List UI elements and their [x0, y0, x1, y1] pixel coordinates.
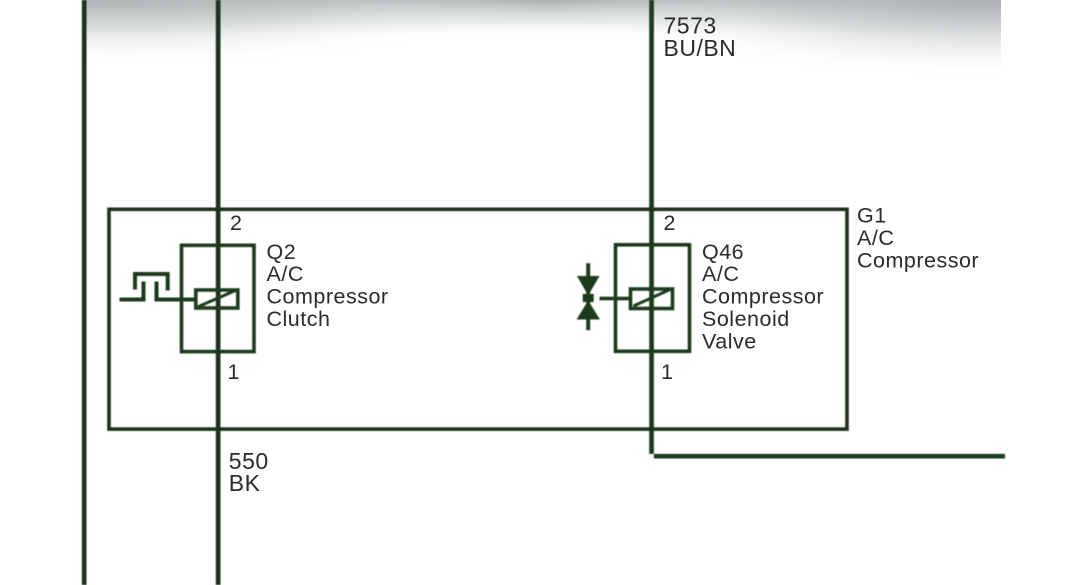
- background shading gradient: [86, 0, 1001, 34]
- wire W2: vertical wire 7573 BU/BN through Q46, corner to right side: [649, 0, 1005, 459]
- svg-text:A/C: A/C: [267, 262, 304, 286]
- component Q46 box: [616, 245, 690, 351]
- svg-text:Compressor: Compressor: [857, 249, 979, 273]
- solenoid coil symbol inside Q46: [631, 289, 673, 309]
- component G1 boundary box (A/C Compressor): [109, 209, 847, 429]
- svg-text:Compressor: Compressor: [267, 285, 389, 309]
- valve symbol left of Q46: [577, 263, 632, 330]
- svg-text:A/C: A/C: [857, 226, 894, 250]
- component Q2 box: [182, 245, 255, 351]
- svg-text:Q2: Q2: [267, 240, 297, 264]
- svg-text:1: 1: [661, 360, 673, 384]
- svg-text:BK: BK: [229, 470, 261, 496]
- svg-text:Solenoid: Solenoid: [702, 307, 790, 331]
- svg-text:BU/BN: BU/BN: [664, 35, 737, 61]
- label Q2 A/C Compressor Clutch: [267, 240, 389, 331]
- svg-text:Q46: Q46: [702, 240, 744, 264]
- label Q46 A/C Compressor Solenoid Valve: [702, 240, 824, 354]
- label wire 550 BK: [229, 448, 269, 496]
- svg-text:2: 2: [664, 211, 676, 235]
- svg-text:Compressor: Compressor: [702, 285, 824, 309]
- clutch symbol (mechanical drive) left of Q2: [120, 274, 197, 301]
- wire W1: vertical wire 550 BK through Q2: [216, 0, 221, 585]
- wire: left page border line: [82, 0, 87, 585]
- svg-text:1: 1: [228, 360, 240, 384]
- svg-text:A/C: A/C: [702, 262, 739, 286]
- svg-text:2: 2: [230, 211, 242, 235]
- svg-text:G1: G1: [857, 203, 887, 227]
- svg-text:Clutch: Clutch: [267, 307, 331, 331]
- label G1 A/C Compressor: [857, 203, 979, 272]
- solenoid coil symbol inside Q2: [196, 290, 238, 308]
- label wire 7573 BU/BN: [664, 13, 737, 62]
- svg-text:Valve: Valve: [702, 329, 757, 353]
